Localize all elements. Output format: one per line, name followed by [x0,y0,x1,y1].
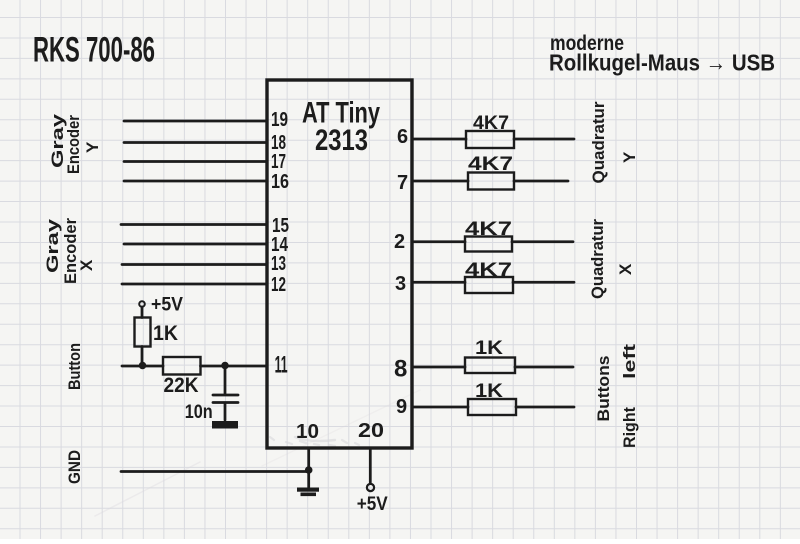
pin number 18 [271,132,286,154]
wire pin 13 [122,263,267,266]
wire pin 6 right segment [514,138,574,141]
wire GND rail [121,470,309,473]
net label Gray (encoder Y) [48,113,67,168]
wire pin 17 [124,160,267,163]
wire pin 9 left segment [412,406,468,409]
+5V terminal circle (button pull-up) [139,301,145,307]
svg-text:Gray: Gray [43,218,62,273]
svg-text:Y: Y [620,151,639,163]
value label 4K7 (pin 2) [465,219,512,240]
wire pin 10 down [307,448,310,488]
svg-text:12: 12 [271,274,286,296]
title text RKS 700-86 [33,31,155,70]
resistor 1K pin 8 [465,358,515,374]
faint diagonal scan streak lower left [95,462,200,516]
svg-text:+5V: +5V [151,295,183,316]
wire pin 3 left segment [412,281,465,284]
svg-text:Button: Button [65,343,84,390]
net label +5V (pin 20) [357,494,388,515]
net label X [77,259,96,271]
svg-text:4K7: 4K7 [468,154,513,175]
pin number 3 [395,273,406,295]
pin number 16 [271,171,289,193]
wire pin 18 [124,141,267,144]
wire pin 15 [121,223,267,226]
svg-text:20: 20 [358,420,384,442]
svg-text:GND: GND [65,450,84,484]
svg-text:RKS 700-86: RKS 700-86 [33,31,155,70]
resistor 4K7 pin 3 [465,277,513,293]
svg-text:Right: Right [620,407,639,448]
wire pin 12 [122,283,267,286]
wire cap to junction [224,366,227,394]
svg-text:17: 17 [271,151,286,173]
svg-text:4K7: 4K7 [465,219,512,240]
svg-text:Y: Y [83,141,102,153]
svg-text:Encoder: Encoder [61,218,80,284]
pin number 13 [271,253,286,275]
net label Encoder (Y) [64,115,83,174]
resistor 1K vertical [135,318,151,347]
junction dot (22K / cap / pin 11) [221,362,229,370]
net label Button [65,343,84,390]
wire pin 14 [124,243,267,246]
net label left [620,344,639,379]
svg-text:4K7: 4K7 [473,113,509,134]
wire pin 9 right segment [516,406,574,409]
capacitor 10n top plate [213,394,238,397]
net label Y (quadrature) [620,151,639,163]
faint diagonal scan streak bottom middle [262,390,420,466]
svg-text:16: 16 [271,171,289,193]
value label 10n [185,402,213,423]
svg-text:8: 8 [394,356,407,383]
resistor 4K7 pin 6 [466,131,514,148]
svg-text:2: 2 [394,231,405,253]
note text Rollkugel-Maus -> USB [549,50,775,76]
wire 22K to pin 11 [201,365,268,368]
+5V terminal circle (pin 20) [367,484,374,491]
svg-text:3: 3 [395,273,406,295]
svg-text:11: 11 [275,352,288,379]
wire pin 8 right segment [515,366,573,369]
ground symbol (capacitor) [212,421,238,429]
wire cap to ground [224,404,227,421]
wire pin 3 right segment [513,281,574,284]
wire pin 7 left segment [412,180,468,183]
svg-text:X: X [77,259,96,271]
resistor 4K7 pin 2 [465,237,512,252]
value label 1K (pin 9) [475,381,503,402]
resistor 4K7 pin 7 [468,173,514,190]
pin number 6 [397,126,408,148]
pin number 2 [394,231,405,253]
faint eraser smudge under 10n [295,437,335,446]
svg-text:X: X [616,263,635,275]
pin number 12 [271,274,286,296]
IC label AT Tiny [302,97,380,130]
svg-text:Buttons: Buttons [594,356,613,422]
wire pin 7 right segment [514,180,568,183]
junction dot (pin 10 / GND rail) [305,466,313,474]
wire +5V to R 1K [141,307,144,318]
resistor 22K [163,357,201,375]
pin number 9 [396,396,407,418]
IC U1 AT Tiny 2313 body [267,80,412,448]
svg-text:9: 9 [396,396,407,418]
net label +5V (pull-up) [151,295,183,316]
junction dot (1K / 22K) [139,362,147,370]
wire pin 2 left segment [412,240,465,243]
svg-text:13: 13 [271,253,286,275]
svg-text:left: left [620,344,639,379]
svg-text:7: 7 [397,172,408,194]
net label Gray (encoder X) [43,218,62,273]
wire button line left [122,365,163,368]
value label 4K7 (pin 7) [468,154,513,175]
note text moderne [550,32,624,55]
svg-text:Quadratur: Quadratur [588,219,607,299]
value label 1K (vertical resistor) [153,322,178,345]
svg-text:4K7: 4K7 [465,260,512,281]
pin number 20 [358,420,384,442]
svg-text:Quadratur: Quadratur [589,101,608,183]
ground symbol (pin 10) [297,488,319,497]
svg-text:1K: 1K [475,338,503,359]
resistor 1K pin 9 [468,399,516,415]
pin number 11 [275,352,288,379]
IC label 2313 [315,124,368,157]
pin number 7 [397,172,408,194]
svg-text:19: 19 [271,109,288,131]
net label X (quadrature) [616,263,635,275]
net label Quadratur (Y) [589,101,608,183]
value label 1K (pin 8) [475,338,503,359]
svg-text:10: 10 [296,421,319,443]
value label 22K [164,374,199,397]
value label 4K7 (pin 6) [473,113,509,134]
wire pin 8 left segment [412,366,465,369]
net label Buttons [594,356,613,422]
value label 4K7 (pin 3) [465,260,512,281]
svg-text:Encoder: Encoder [64,115,83,174]
net label Y [83,141,102,153]
svg-text:1K: 1K [475,381,503,402]
pin number 17 [271,151,286,173]
wire pin 16 [124,180,267,183]
faint pencil ghost marks near pin 10 [270,437,359,445]
pin number 10 [296,421,319,443]
wire pin 2 right segment [512,240,573,243]
svg-text:1K: 1K [153,322,178,345]
pin number 14 [271,234,289,256]
capacitor 10n bottom plate [213,401,238,404]
pin number 19 [271,109,288,131]
pin number 15 [272,215,289,237]
svg-text:Rollkugel-Maus → USB: Rollkugel-Maus → USB [549,50,775,76]
net label Right [620,407,639,448]
svg-text:+5V: +5V [357,494,388,515]
wire pin 20 down [369,448,372,483]
wire pin 19 [124,120,267,123]
wire pin 6 left segment [412,138,466,141]
wire R 1K to junction [141,347,144,366]
svg-text:6: 6 [397,126,408,148]
net label Quadratur (X) [588,219,607,299]
pin number 8 [394,356,407,383]
svg-text:10n: 10n [185,402,213,423]
net label GND [65,450,84,484]
svg-text:2313: 2313 [315,124,368,157]
svg-text:22K: 22K [164,374,199,397]
net label Encoder (X) [61,218,80,284]
